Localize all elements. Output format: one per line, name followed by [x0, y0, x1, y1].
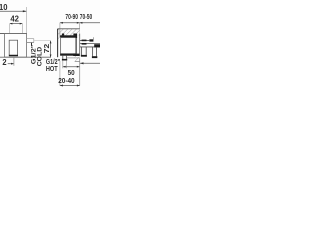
plate side profile: [57, 29, 59, 57]
svg-text:42: 42: [10, 14, 19, 23]
shelf line: [66, 57, 79, 59]
svg-text:HOT: HOT: [46, 66, 58, 73]
hot pipe down from body: [62, 56, 64, 61]
fitting block top right: [89, 39, 93, 41]
wall face line: [59, 29, 61, 37]
stub centerline to vdim: [34, 40, 51, 42]
drop pipe A: [81, 47, 83, 55]
vertical dim line 72: [50, 41, 52, 58]
svg-text:70-90: 70-90: [65, 12, 78, 21]
drop pipe B: [92, 47, 94, 56]
fitting stem: [93, 37, 95, 39]
corner dark block right: [73, 54, 80, 56]
hatch lower patch: [75, 56, 80, 61]
cold stub: [27, 38, 34, 40]
svg-text:72: 72: [44, 44, 51, 54]
svg-text:10: 10: [0, 3, 8, 12]
body top dark bar: [60, 35, 76, 37]
dim 50: [62, 60, 64, 68]
flange: [75, 34, 77, 54]
svg-text:G1/2": G1/2": [46, 59, 60, 66]
extension line: [26, 7, 28, 33]
body bottom dark bar: [60, 54, 76, 56]
body outline: [61, 38, 76, 54]
ext stubs: [59, 23, 61, 29]
top dim line with right arrow: [0, 10, 26, 12]
handle square: [9, 40, 17, 55]
long arrow line at wall rear: [80, 62, 100, 64]
nubs on top bar: [62, 34, 64, 36]
svg-text:70-50: 70-50: [80, 12, 92, 21]
nut on pipe: [82, 40, 87, 42]
svg-text:20-40: 20-40: [58, 76, 74, 85]
bottom ext lines: [59, 61, 61, 86]
wall top edge: [58, 28, 80, 30]
plate bottom line extended right: [0, 56, 51, 58]
top dim line: [60, 22, 100, 24]
dark block right edge: [94, 44, 100, 47]
svg-text:COLD: COLD: [37, 47, 44, 67]
plate outline: [5, 34, 27, 58]
top pipe horizontals: [80, 40, 90, 42]
dim line 42: [10, 23, 23, 25]
plate top line (extends to left edge): [0, 33, 27, 35]
wall hatch top band: [58, 29, 80, 36]
svg-text:2: 2: [2, 58, 7, 67]
